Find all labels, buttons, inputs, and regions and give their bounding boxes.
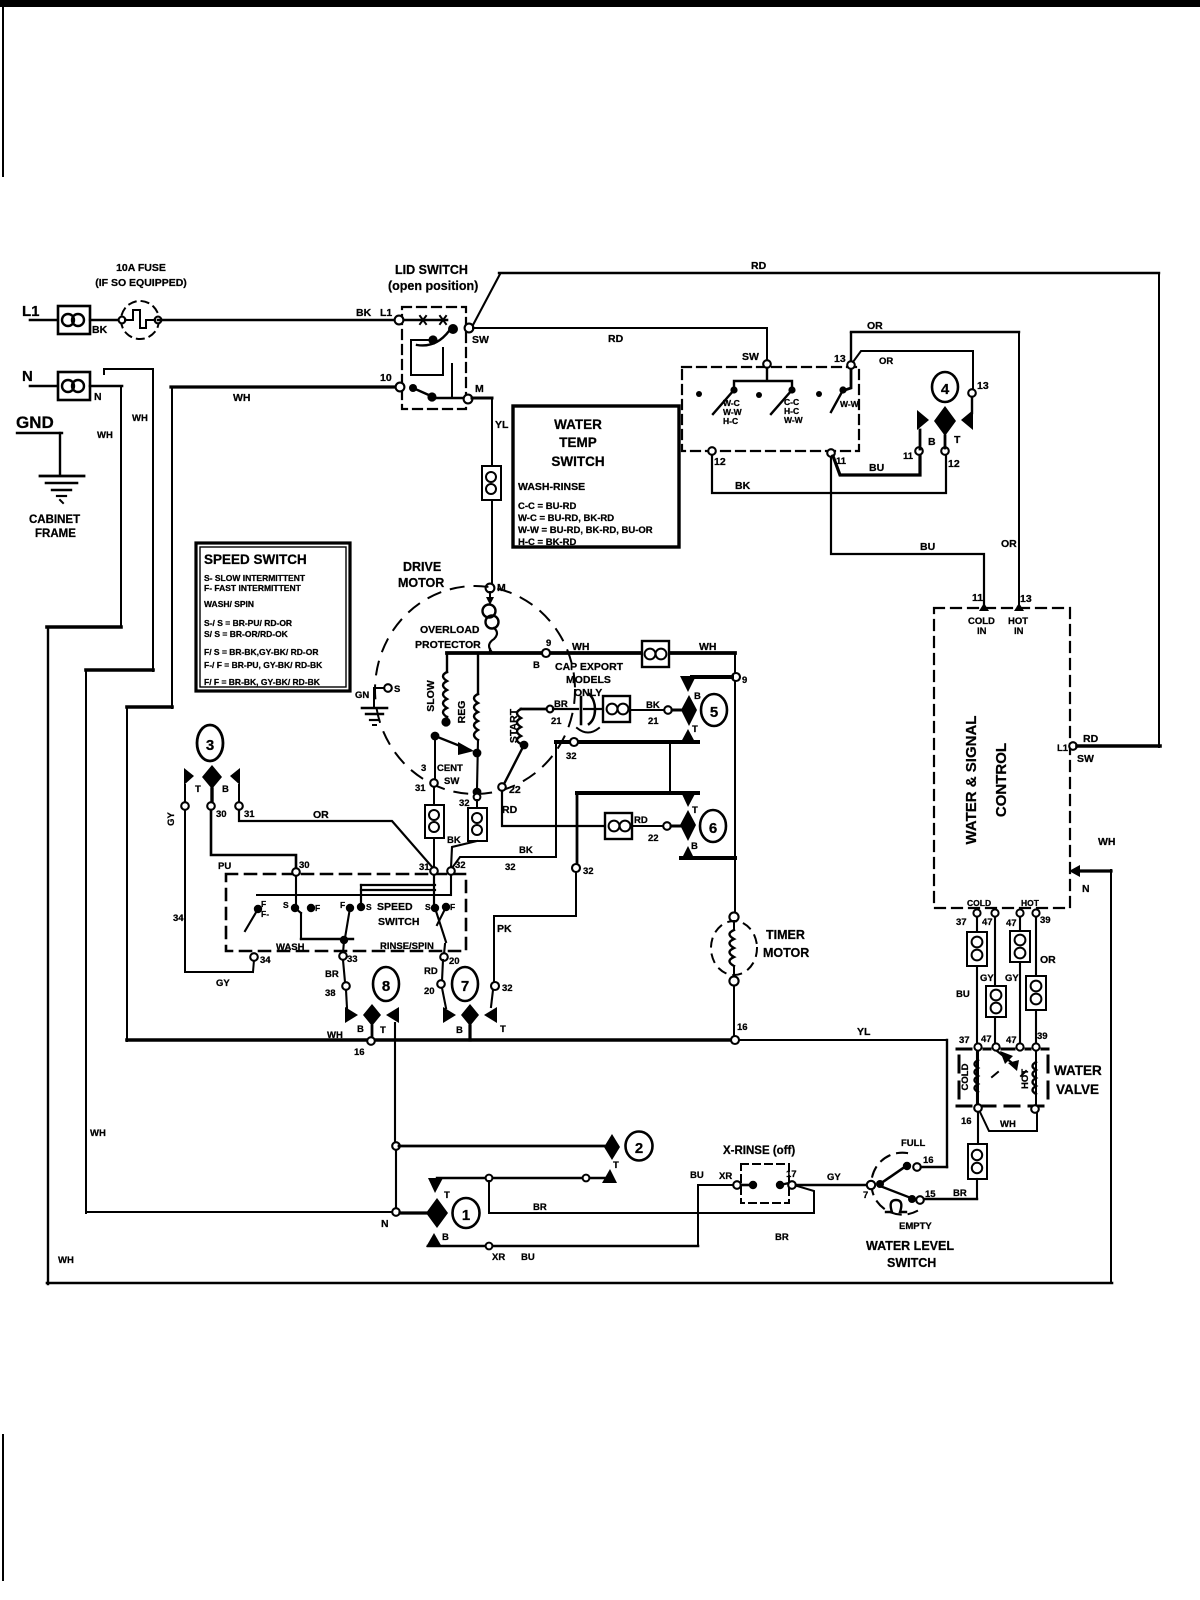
wire BR drop from T bus <box>488 1181 490 1213</box>
svg-text:T: T <box>954 434 961 446</box>
wire WH inner jog <box>86 668 153 672</box>
block 1 diamond <box>426 1198 448 1228</box>
wire FULL 16 to YL riser <box>921 1166 947 1168</box>
speed switch double bus <box>361 884 435 886</box>
svg-text:START: START <box>508 708 520 743</box>
motor terminal 21 <box>547 706 554 713</box>
wire 47 GY down (right) <box>1019 917 1021 1044</box>
x-rinse moving contact <box>776 1181 784 1189</box>
wire 38 to block 8 B <box>346 990 347 1008</box>
svg-text:X-RINSE (off): X-RINSE (off) <box>723 1145 795 1157</box>
speed switch main line <box>257 894 450 896</box>
lid switch blade 1 <box>417 331 449 345</box>
wire YL to water level switch <box>735 1039 947 1041</box>
svg-text:TEMP: TEMP <box>559 435 597 450</box>
svg-text:5: 5 <box>710 704 718 721</box>
centrifugal switch pivot <box>431 732 440 741</box>
svg-text:10A FUSE: 10A FUSE <box>116 262 166 274</box>
block 5 terminal circle <box>664 706 672 714</box>
wire WH motor loop jog <box>127 705 172 709</box>
wire BK 21 to block 5 <box>630 709 664 711</box>
svg-text:SWITCH: SWITCH <box>887 1256 936 1270</box>
junction 9 on WH drop <box>732 673 740 681</box>
svg-text:OVERLOAD: OVERLOAD <box>420 624 480 636</box>
motor terminal 32 on reg line <box>473 788 482 797</box>
svg-text:TIMER: TIMER <box>766 928 805 942</box>
svg-text:CAP EXPORT: CAP EXPORT <box>555 661 624 673</box>
water level switch terminal 7 <box>867 1181 875 1189</box>
svg-text:T: T <box>500 1024 506 1035</box>
start switch blade to 22 <box>504 745 524 784</box>
temp switch contact 3 pivot and blade <box>839 386 846 393</box>
svg-text:RD: RD <box>751 260 767 272</box>
lid switch internal node dot <box>428 335 437 344</box>
svg-text:31: 31 <box>415 783 426 794</box>
svg-text:11: 11 <box>972 592 983 604</box>
wire T bus between block1 and block2 <box>437 1177 606 1179</box>
svg-text:34: 34 <box>260 955 271 966</box>
wire WH outer bottom <box>47 1282 1112 1285</box>
arrow into COLD IN <box>979 603 989 611</box>
svg-text:T: T <box>692 805 698 816</box>
svg-text:BK: BK <box>735 480 751 492</box>
connector P10 on 31 wire <box>425 805 444 838</box>
wire to block 2 <box>395 1144 397 1212</box>
svg-text:RD: RD <box>424 966 438 977</box>
junction N at block 1 <box>392 1208 400 1216</box>
wire 13 to W-W contact <box>845 369 851 390</box>
svg-text:MOTOR: MOTOR <box>763 946 809 960</box>
wire N connector to corner <box>90 385 122 388</box>
svg-text:WH: WH <box>1098 836 1116 848</box>
lid switch internal riser to M <box>451 364 453 397</box>
svg-text:WH: WH <box>1000 1119 1016 1130</box>
svg-text:WH: WH <box>699 641 717 653</box>
circled 2 <box>626 1132 653 1161</box>
wire WH outer right vertical <box>1110 870 1112 1283</box>
svg-text:13: 13 <box>834 353 846 365</box>
svg-text:13: 13 <box>977 380 989 392</box>
lid switch dashed box <box>402 307 466 409</box>
svg-text:S- SLOW INTERMITTENT: S- SLOW INTERMITTENT <box>204 573 306 583</box>
x-rinse terminal 17 <box>788 1181 796 1189</box>
block 8 T stem down <box>394 1023 396 1146</box>
svg-text:10: 10 <box>380 372 392 384</box>
svg-text:16: 16 <box>354 1047 365 1058</box>
svg-text:12: 12 <box>948 458 960 470</box>
circled 8 <box>373 967 399 1001</box>
svg-text:CONTROL: CONTROL <box>993 743 1010 817</box>
block 6 B arrow <box>681 846 695 860</box>
reg winding <box>456 653 478 789</box>
wire YL riser to FULL 16 <box>946 1040 948 1167</box>
arrow into HOT IN <box>1014 603 1024 611</box>
svg-text:HOT: HOT <box>1020 1069 1031 1089</box>
svg-text:F: F <box>261 899 266 909</box>
svg-text:PROTECTOR: PROTECTOR <box>415 639 481 651</box>
connector P8 on 16 wire <box>968 1144 987 1179</box>
svg-text:WH: WH <box>327 1030 343 1041</box>
page left edge tick top <box>2 7 4 176</box>
wire YL from lid switch M <box>472 397 492 400</box>
wire blade2 to M <box>435 397 464 399</box>
svg-text:16: 16 <box>737 1022 748 1033</box>
block 5 diamond <box>681 695 697 726</box>
svg-text:6: 6 <box>709 820 717 837</box>
temp switch contact 2 pivot and blade <box>788 386 795 393</box>
wire 20 to block 7 B <box>442 988 446 1008</box>
svg-text:YL: YL <box>857 1026 871 1038</box>
lid switch terminal L1 <box>395 316 404 325</box>
wire RD drop to temp switch SW <box>766 328 768 361</box>
svg-text:47: 47 <box>981 1034 992 1045</box>
wire BR to x-rinse <box>489 1212 814 1214</box>
connector P13 on RD wire <box>605 813 632 839</box>
svg-text:WATER & SIGNAL: WATER & SIGNAL <box>963 716 980 845</box>
wire PK horizontal <box>494 915 576 917</box>
block 4 terminal 13 <box>968 389 976 397</box>
block 6 B bar to WH drop <box>681 856 735 860</box>
speed switch terminal 30 <box>292 868 300 876</box>
temp switch feed staple <box>734 368 792 388</box>
block 3 terminal 30 <box>207 802 215 810</box>
wire RD riser from SW to top bus <box>473 274 500 325</box>
temp switch terminal SW <box>763 360 771 368</box>
speed switch terminal 32 <box>447 867 455 875</box>
wire PK drop <box>575 872 577 916</box>
pressure dome symbol <box>886 1200 906 1212</box>
svg-text:39: 39 <box>1040 915 1051 926</box>
svg-text:T: T <box>195 784 201 795</box>
svg-text:SWITCH: SWITCH <box>378 916 419 928</box>
lid switch terminal 10 <box>396 383 405 392</box>
svg-text:S: S <box>283 900 289 910</box>
svg-text:PK: PK <box>497 923 512 935</box>
svg-text:SPEED SWITCH: SPEED SWITCH <box>204 552 307 567</box>
drive motor terminal M <box>486 584 495 593</box>
svg-text:WH: WH <box>97 430 113 441</box>
block 3 arrows T diamond B <box>184 768 194 785</box>
svg-text:WASH/ SPIN: WASH/ SPIN <box>204 599 254 609</box>
connector P2 (N line disconnect) <box>58 372 90 400</box>
svg-text:B: B <box>691 841 698 852</box>
svg-text:BU: BU <box>521 1252 535 1263</box>
svg-text:T: T <box>444 1190 450 1201</box>
block 1 T arrow <box>428 1178 443 1193</box>
svg-text:SPEED: SPEED <box>377 901 413 913</box>
speed switch terminal 34 <box>250 953 258 961</box>
wire 32 bus riser <box>669 744 671 791</box>
svg-text:C-C = BU-RD: C-C = BU-RD <box>518 501 576 512</box>
control terminal N arrow <box>1069 865 1080 877</box>
block 7 diamond stem to 16 bus <box>468 1026 471 1040</box>
wire lid switch L1 to SW contact <box>404 319 447 322</box>
speed switch contact dots <box>254 905 262 913</box>
wire RD from 22 <box>502 791 604 826</box>
EMPTY contact terminal 15 <box>916 1196 924 1204</box>
svg-text:WATER LEVEL: WATER LEVEL <box>866 1239 954 1253</box>
svg-text:GY: GY <box>166 811 177 825</box>
wire GY down left <box>184 810 186 972</box>
svg-text:38: 38 <box>325 988 336 999</box>
svg-text:33: 33 <box>347 954 358 965</box>
timer motor coil <box>730 921 735 976</box>
svg-text:WH: WH <box>572 641 590 653</box>
svg-text:N: N <box>1082 883 1090 895</box>
control bottom terminals 37 47 47 39 <box>973 909 980 916</box>
svg-text:W-C = BU-RD, BK-RD: W-C = BU-RD, BK-RD <box>518 513 614 524</box>
connector P11 on 32 wire <box>468 808 487 841</box>
svg-text:30: 30 <box>216 809 227 820</box>
wire N bus bottom to block 1 <box>86 1211 396 1213</box>
wire WH drop to motor loop <box>171 387 173 708</box>
block 2 diamond <box>604 1134 620 1160</box>
wire 37 BU down <box>976 917 978 1104</box>
wire 32 lower bar drop <box>576 793 579 865</box>
block 4 arrows B diamond T <box>917 410 929 430</box>
svg-text:3: 3 <box>421 763 426 774</box>
wire 16 down from valve <box>977 1112 979 1145</box>
speed switch 30 drop <box>295 876 297 906</box>
svg-text:13: 13 <box>1020 593 1032 605</box>
motor terminal 22 <box>498 783 506 791</box>
overload protector coil <box>483 592 499 653</box>
wire WH from control N <box>1079 869 1111 872</box>
block 5 B bar from 9 <box>692 675 732 679</box>
svg-text:GND: GND <box>16 413 54 432</box>
capacitor C1 (export models) <box>577 694 603 733</box>
svg-text:2: 2 <box>635 1140 643 1157</box>
svg-text:7: 7 <box>863 1190 868 1201</box>
svg-text:CENT: CENT <box>437 763 463 774</box>
temp switch fixed contact dots <box>696 391 702 397</box>
svg-text:34: 34 <box>173 913 184 924</box>
svg-text:CABINET: CABINET <box>29 514 80 526</box>
x-rinse dashed box <box>741 1164 789 1203</box>
speed switch dashed box <box>226 874 466 951</box>
lid switch terminal SW <box>465 324 474 333</box>
wire 16 bus horizontal thick <box>127 1038 735 1042</box>
lid switch terminal M <box>464 395 473 404</box>
wire WH motor loop vertical <box>126 707 128 1041</box>
svg-text:W-W: W-W <box>784 415 804 425</box>
svg-text:4: 4 <box>941 381 950 398</box>
temp switch terminal 12 <box>708 447 716 455</box>
svg-text:F-/ F = BR-PU, GY-BK/ RD-BK: F-/ F = BR-PU, GY-BK/ RD-BK <box>204 660 323 670</box>
svg-text:IN: IN <box>977 626 987 637</box>
speed switch terminal 32 mid <box>572 864 580 872</box>
circled 3 <box>197 725 223 761</box>
svg-text:SW: SW <box>1077 753 1094 765</box>
wire OR riser from 13 <box>850 333 852 361</box>
svg-text:VALVE: VALVE <box>1056 1082 1099 1097</box>
wire WH from lid switch 10 <box>171 385 396 388</box>
connector P9 on WH bus <box>642 641 669 667</box>
svg-text:20: 20 <box>424 986 435 997</box>
svg-text:S-/ S = BR-PU/ RD-OR: S-/ S = BR-PU/ RD-OR <box>204 618 292 628</box>
svg-text:WASH: WASH <box>276 942 305 953</box>
wire RD 20 to block 7 <box>442 960 443 981</box>
water level switch dashed circle <box>871 1153 917 1215</box>
block 6 T arrow <box>681 792 696 807</box>
svg-text:47: 47 <box>982 917 993 928</box>
svg-text:XR: XR <box>719 1171 732 1182</box>
junction 16 on bus <box>731 1036 739 1044</box>
block 4 terminal 11 <box>915 447 923 455</box>
wire BK fuse to lid switch L1 <box>158 319 395 322</box>
svg-text:31: 31 <box>419 862 430 873</box>
water level switch pivot <box>876 1180 884 1188</box>
svg-text:22: 22 <box>509 784 521 796</box>
FULL contact terminal 16 <box>913 1163 921 1171</box>
wire BR riser to 17 <box>797 1186 814 1213</box>
svg-text:MODELS: MODELS <box>566 674 611 686</box>
wire PK drop to 32 <box>493 916 495 983</box>
svg-text:DRIVE: DRIVE <box>403 560 441 574</box>
svg-text:9: 9 <box>546 638 551 649</box>
block 3 stems <box>184 785 186 803</box>
block 8 diamond stem to 16 bus <box>371 1026 374 1039</box>
svg-text:B: B <box>357 1024 364 1035</box>
wire WH stub from N connector top <box>104 368 153 370</box>
svg-text:YL: YL <box>495 419 509 431</box>
svg-text:RD: RD <box>634 815 648 826</box>
wire WH inner vertical lower <box>85 670 87 1213</box>
wire BK to speed switch 32 <box>452 857 556 868</box>
wire to circled 2 diamond <box>399 1145 604 1148</box>
wire GY to water level switch <box>796 1184 867 1187</box>
wire GY bottom jog <box>185 971 253 973</box>
svg-text:OR: OR <box>879 356 893 367</box>
blade to FULL <box>880 1166 906 1184</box>
svg-text:SWITCH: SWITCH <box>551 454 604 469</box>
svg-text:32: 32 <box>583 866 594 877</box>
wire RD top bus to water signal control <box>499 272 1159 274</box>
wire BK 12 to block 4 <box>712 455 946 493</box>
svg-text:F-: F- <box>261 909 269 919</box>
circled 1 <box>453 1198 480 1228</box>
svg-text:N: N <box>94 391 102 403</box>
lid switch internal S wire <box>411 340 443 375</box>
svg-text:WH: WH <box>90 1128 106 1139</box>
start winding <box>508 708 548 749</box>
speed switch info box <box>196 543 350 691</box>
timer motor dashed circle <box>711 921 757 975</box>
block 7 arrows B diamond T <box>443 1007 456 1023</box>
svg-text:N: N <box>381 1218 389 1230</box>
svg-text:N: N <box>22 368 33 385</box>
svg-text:RD: RD <box>502 804 518 816</box>
speed switch terminal 20 <box>444 944 445 954</box>
wire 32 to block 7 T <box>491 990 493 1007</box>
svg-text:H-C = BK-RD: H-C = BK-RD <box>518 537 576 548</box>
wire BR 33 to 38 <box>343 960 345 982</box>
wire connector to fuse <box>90 319 122 321</box>
x-rinse terminal XR <box>733 1181 741 1189</box>
junction 16 left <box>367 1037 375 1045</box>
wire to BR junction <box>976 1179 978 1199</box>
svg-text:22: 22 <box>648 833 659 844</box>
connector P4 on 37 wire <box>967 932 987 966</box>
water valve bottom terminal 16 <box>974 1104 982 1112</box>
svg-text:SW: SW <box>444 776 459 787</box>
svg-text:30: 30 <box>299 860 310 871</box>
terminal 32 above block 7 <box>491 982 499 990</box>
wire BU riser to XR <box>698 1185 733 1246</box>
speed switch 32 drop <box>450 875 452 895</box>
wire 13 jumper to block 4 <box>853 351 973 389</box>
connector P1 (L1 line disconnect) <box>58 306 90 334</box>
svg-text:L1: L1 <box>1057 743 1069 754</box>
speed switch terminal 31 <box>430 867 438 875</box>
svg-text:RD: RD <box>608 333 624 345</box>
svg-text:GN: GN <box>355 690 369 701</box>
fuse F1 10A (dashed circle with element) <box>119 301 162 339</box>
svg-text:BK: BK <box>92 324 108 336</box>
svg-text:S/ S = BR-OR/RD-OK: S/ S = BR-OR/RD-OK <box>204 629 289 639</box>
svg-text:SW: SW <box>472 334 489 346</box>
svg-text:F: F <box>450 902 455 912</box>
wire BU 11 to block 4 <box>833 455 920 475</box>
control terminal L1 SW <box>1069 742 1077 750</box>
svg-text:W-W: W-W <box>840 399 860 409</box>
svg-text:RINSE/SPIN: RINSE/SPIN <box>380 941 434 952</box>
svg-text:WH: WH <box>58 1255 74 1266</box>
ground GND cabinet frame <box>16 413 84 503</box>
terminal 38 <box>342 982 350 990</box>
svg-text:WH: WH <box>233 392 251 404</box>
timer motor terminal top <box>729 912 738 921</box>
svg-text:B: B <box>222 784 229 795</box>
centrifugal switch blade <box>435 736 470 750</box>
water valve dashed box <box>957 1049 1048 1106</box>
svg-text:OR: OR <box>313 809 329 821</box>
circled 7 <box>452 967 478 1001</box>
wire WH outer loop jog <box>47 625 121 629</box>
svg-text:GY: GY <box>1005 973 1019 984</box>
svg-text:F: F <box>315 903 320 913</box>
drive motor dashed circle <box>375 586 575 794</box>
wire 39 OR down <box>1035 917 1037 1044</box>
wire WH drop right side <box>734 653 736 914</box>
svg-text:S: S <box>366 902 372 912</box>
wire 32 bus upper bar <box>556 740 698 744</box>
connector P7 on 39 wire <box>1026 976 1046 1010</box>
wire 32 bar left drop <box>555 742 557 857</box>
water valve internal switch blade <box>992 1051 1026 1077</box>
wire 31 from cent switch down <box>434 740 436 779</box>
ground symbol at motor <box>362 688 387 725</box>
terminal 20 lower <box>437 980 445 988</box>
svg-text:F/ F = BR-BK, GY-BK/ RD-BK: F/ F = BR-BK, GY-BK/ RD-BK <box>204 677 321 687</box>
page top border bar <box>0 0 1200 7</box>
motor terminal 9 junction <box>542 649 550 657</box>
svg-text:BK: BK <box>356 307 372 319</box>
wire N to block 1 diamond <box>400 1211 426 1214</box>
wire RD to block 6 <box>632 825 663 827</box>
svg-text:REG: REG <box>456 701 468 724</box>
svg-text:BU: BU <box>690 1170 704 1181</box>
wire BU from 11 to COLD IN <box>831 457 984 604</box>
svg-text:21: 21 <box>648 716 659 727</box>
wire 31 to connector <box>433 787 435 806</box>
svg-text:WATER: WATER <box>554 417 602 432</box>
svg-text:IN: IN <box>1014 626 1024 637</box>
page left edge tick bottom <box>2 1435 4 1580</box>
block 5 B arrow <box>680 676 696 692</box>
wire 31 connector to speed switch <box>433 838 435 868</box>
wire 47 GY down (left) <box>994 917 996 1044</box>
